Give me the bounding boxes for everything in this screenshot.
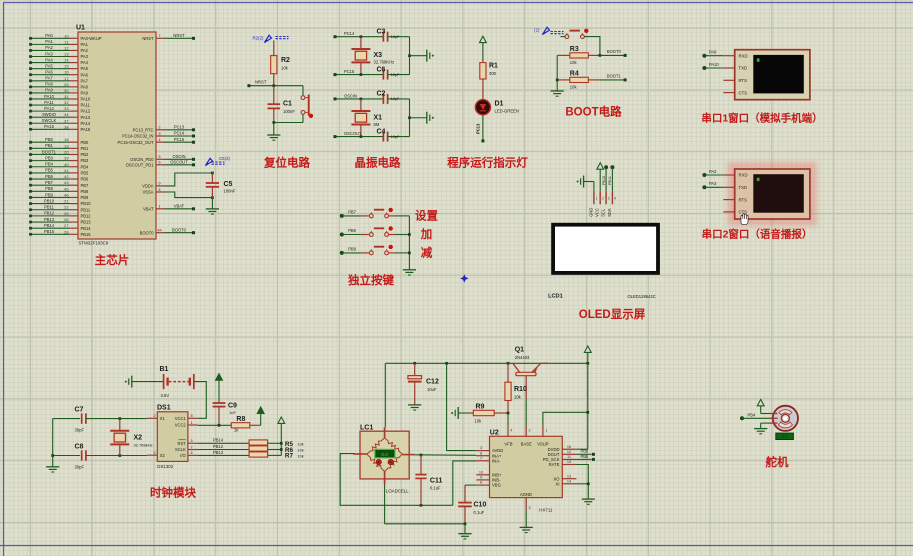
svg-text:PB8: PB8 xyxy=(348,228,356,233)
svg-text:C8: C8 xyxy=(75,444,84,451)
svg-text:VFB: VFB xyxy=(504,441,512,446)
svg-text:41: 41 xyxy=(64,168,68,173)
U1 pin 22 PB11 wire PB11 xyxy=(31,209,71,211)
terminal VT1 serial window 1 xyxy=(735,50,810,100)
wire PB7 to bus xyxy=(389,215,396,217)
svg-text:PC14-OSC32_IN: PC14-OSC32_IN xyxy=(122,134,153,139)
svg-text:C10: C10 xyxy=(474,502,487,509)
resistor R1 300 xyxy=(480,63,486,79)
svg-text:PA5: PA5 xyxy=(81,66,89,71)
svg-text:BOOT电路: BOOT电路 xyxy=(565,105,622,119)
U1 pin 25 PB12 wire PB12 xyxy=(31,215,71,217)
wire LC1 bottom xyxy=(384,485,386,524)
svg-text:NRST: NRST xyxy=(173,33,185,38)
terminal VT2 serial window 2 (highlighted) xyxy=(728,162,817,226)
svg-text:I/O: I/O xyxy=(180,453,185,458)
wire PC14 xyxy=(335,36,383,38)
svg-text:7: 7 xyxy=(158,33,160,38)
U1 pin 20 PB2 wire BOOT1 xyxy=(31,153,71,155)
loadcell internal leads xyxy=(384,427,386,438)
U1 pin 1 VBAT wire VBAT xyxy=(156,208,165,210)
U1 pin 3 PC14-OSC32_IN wire PC14 xyxy=(156,135,165,137)
wire BOOT0 net xyxy=(599,54,602,57)
svg-text:6: 6 xyxy=(480,481,482,485)
U2 pin 14 XI xyxy=(562,483,576,485)
U1 pin 4 PC15-OSC32_OUT wire PC15 xyxy=(156,141,165,143)
resistor R7 10k xyxy=(249,452,268,457)
wire VBG to C10 xyxy=(465,484,476,486)
svg-text:PB8: PB8 xyxy=(81,189,89,194)
svg-text:100nF: 100nF xyxy=(283,109,295,114)
svg-text:PB7: PB7 xyxy=(81,183,89,188)
svg-text:3.6V: 3.6V xyxy=(161,393,170,398)
svg-text:12pF: 12pF xyxy=(391,34,401,39)
svg-text:PA5: PA5 xyxy=(45,63,53,68)
svg-text:C7: C7 xyxy=(75,407,84,414)
svg-text:PB2: PB2 xyxy=(81,152,89,157)
push button PB8 xyxy=(340,233,344,237)
capacitor C5 100nF xyxy=(211,173,213,183)
svg-text:C2: C2 xyxy=(377,91,386,98)
svg-text:PA10: PA10 xyxy=(81,97,91,102)
svg-text:R4: R4 xyxy=(570,71,579,78)
terminal pin RXD xyxy=(723,55,734,57)
U1 pin 9 VDDA xyxy=(156,185,165,187)
U1 pin 40 PB4 wire PB4 xyxy=(31,166,71,168)
U2 pin 13 XO xyxy=(562,478,576,480)
wire PC15 xyxy=(335,74,383,76)
svg-text:27: 27 xyxy=(64,223,68,228)
svg-text:7: 7 xyxy=(191,444,193,449)
U2 pin 16 DVDD xyxy=(562,448,576,450)
U1 pin 10 PA0-WKUP wire PA0 xyxy=(31,37,71,39)
junction C10 bottom xyxy=(464,522,467,525)
svg-text:1: 1 xyxy=(596,196,598,200)
push button PB7 xyxy=(340,214,344,218)
U1 pin 21 PB10 wire PB10 xyxy=(31,203,71,205)
U1 pin 34 PA13 wire SWDIO xyxy=(31,116,71,118)
OLED pin 3 SCL xyxy=(605,191,607,204)
U1 pin 29 PA8 wire PA8 xyxy=(31,86,71,88)
wire OSCIN xyxy=(335,98,383,100)
svg-text:VDDA: VDDA xyxy=(142,184,154,189)
wire right rail X1 xyxy=(409,99,411,137)
U1 pin 2 PC13_RTC wire PC13 xyxy=(156,129,165,131)
wire PB9 to bus xyxy=(389,252,396,254)
servo angle display xyxy=(776,433,794,439)
svg-text:4: 4 xyxy=(510,429,512,433)
svg-text:R7: R7 xyxy=(285,453,294,460)
wire PB13 xyxy=(198,454,250,456)
svg-text:BASE: BASE xyxy=(521,441,532,446)
wire RATE XI to ground xyxy=(576,465,588,500)
svg-text:R3: R3 xyxy=(570,46,579,53)
svg-text:19: 19 xyxy=(64,143,68,148)
svg-text:2: 2 xyxy=(153,413,155,418)
wire button to BOOT0 xyxy=(584,37,600,56)
svg-text:C4: C4 xyxy=(377,128,386,135)
svg-text:10k: 10k xyxy=(570,60,578,65)
cursor (1) xyxy=(543,27,550,34)
loadcell bridge resistors xyxy=(367,438,385,455)
svg-text:10k: 10k xyxy=(514,395,522,400)
wire VSSA to C5 bottom xyxy=(165,192,213,198)
svg-text:1: 1 xyxy=(545,429,547,433)
capacitor C4 12pF xyxy=(382,132,384,142)
resistor R4 10k xyxy=(557,79,570,81)
svg-text:PB0: PB0 xyxy=(81,140,89,145)
svg-text:3: 3 xyxy=(608,196,610,200)
blue sparkle marker xyxy=(460,274,468,282)
U1 pin 46 PB9 wire PB9 xyxy=(31,196,71,198)
power arrow HX711 xyxy=(584,346,591,352)
svg-text:PC14: PC14 xyxy=(344,31,355,36)
svg-text:PA9: PA9 xyxy=(45,88,53,93)
svg-text:13: 13 xyxy=(64,52,68,57)
terminal pin CTS xyxy=(723,211,734,213)
svg-text:PA12: PA12 xyxy=(44,106,54,111)
svg-text:32: 32 xyxy=(64,100,68,105)
svg-text:PB9: PB9 xyxy=(81,195,89,200)
svg-text:时钟模块: 时钟模块 xyxy=(150,486,196,500)
crystal X2 32.768kHz xyxy=(119,419,121,431)
ground BOOT circuit xyxy=(551,90,564,92)
svg-text:PB14: PB14 xyxy=(44,223,55,228)
svg-text:12: 12 xyxy=(567,450,571,454)
U1 pin 42 PB6 wire PB6 xyxy=(31,178,71,180)
wire OSCOUT xyxy=(335,136,383,138)
wire PB14 xyxy=(198,442,250,444)
svg-text:PA7: PA7 xyxy=(81,78,89,83)
svg-text:复位电路: 复位电路 xyxy=(263,156,310,170)
svg-text:PA9: PA9 xyxy=(81,91,89,96)
svg-text:25: 25 xyxy=(64,211,68,216)
U1 pin 44 BOOT0 wire BOOT0 xyxy=(156,232,165,234)
U2 top pins 4 2 1 xyxy=(507,426,509,436)
svg-text:U2: U2 xyxy=(490,430,499,437)
svg-text:INA-: INA- xyxy=(492,458,501,463)
svg-text:10k: 10k xyxy=(298,448,304,452)
svg-text:VCC1: VCC1 xyxy=(175,416,187,421)
svg-text:30pF: 30pF xyxy=(75,428,85,433)
node NRST wire xyxy=(249,85,303,87)
svg-text:PA3: PA3 xyxy=(45,51,53,56)
svg-text:OSCOUT: OSCOUT xyxy=(170,159,188,164)
U2 pin 5 AGND xyxy=(525,498,527,511)
svg-text:GND: GND xyxy=(588,208,593,217)
svg-text:7: 7 xyxy=(480,456,482,460)
svg-text:4: 4 xyxy=(614,196,616,200)
U2 pin 12 DOUT xyxy=(562,453,576,455)
wire DOUT PB6 xyxy=(576,453,591,455)
svg-text:PB7: PB7 xyxy=(45,180,53,185)
svg-text:PA8: PA8 xyxy=(45,82,53,87)
ground left of OLED xyxy=(583,176,585,188)
resistor R8 1k xyxy=(231,423,250,428)
svg-text:PC15: PC15 xyxy=(344,69,355,74)
OLED pin 4 SDA xyxy=(611,191,613,204)
DS1 pin 6 I/O xyxy=(188,454,198,456)
svg-text:11: 11 xyxy=(567,455,571,459)
svg-text:R2: R2 xyxy=(281,57,290,64)
wire INA- down xyxy=(453,461,477,505)
svg-text:C11: C11 xyxy=(430,478,443,485)
svg-text:6: 6 xyxy=(191,450,193,455)
DS1 pin 5 RST xyxy=(188,442,198,444)
capacitor C7 30pF xyxy=(53,418,80,420)
svg-text:STM32F103C8: STM32F103C8 xyxy=(79,241,109,246)
resistor R2 10k xyxy=(273,41,275,56)
svg-text:VCC: VCC xyxy=(595,208,600,217)
DS1 pin 7 SCLK xyxy=(188,449,198,451)
svg-text:3: 3 xyxy=(480,446,482,450)
svg-text:OSCIN_PD0: OSCIN_PD0 xyxy=(130,157,154,162)
svg-text:PC15-OSC32_OUT: PC15-OSC32_OUT xyxy=(118,140,154,145)
U2 pin 6 VBG xyxy=(476,484,489,486)
svg-text:TXD: TXD xyxy=(739,66,748,71)
svg-text:PA2: PA2 xyxy=(709,169,717,174)
svg-text:BOOT1: BOOT1 xyxy=(607,74,622,79)
wire PA10 xyxy=(704,67,723,69)
svg-text:LED-GREEN: LED-GREEN xyxy=(495,109,519,114)
push button reset xyxy=(302,86,304,96)
U1 pin 28 PB15 wire PB15 xyxy=(31,233,71,235)
svg-text:PB11: PB11 xyxy=(44,205,54,210)
svg-text:PB10: PB10 xyxy=(602,176,606,185)
svg-text:RATE: RATE xyxy=(549,462,560,467)
power arrow LED xyxy=(480,36,487,42)
svg-text:Q1: Q1 xyxy=(515,347,524,354)
svg-text:5: 5 xyxy=(529,506,531,510)
svg-text:OSCIN: OSCIN xyxy=(173,154,186,159)
svg-text:2: 2 xyxy=(602,196,604,200)
wire PA2 xyxy=(704,174,723,176)
svg-text:PB13: PB13 xyxy=(81,220,92,225)
ground servo xyxy=(754,428,767,430)
U1 pin 39 PB3 wire PB3 xyxy=(31,160,71,162)
svg-text:37: 37 xyxy=(64,118,68,123)
U2 pin 15 RATE xyxy=(562,464,576,466)
svg-text:8: 8 xyxy=(158,187,160,192)
svg-text:VCC2: VCC2 xyxy=(175,423,187,428)
svg-text:OLED128642C: OLED128642C xyxy=(627,294,655,299)
svg-text:10k: 10k xyxy=(298,442,304,446)
svg-text:PA0: PA0 xyxy=(45,33,53,38)
servo pins xyxy=(770,413,778,415)
svg-text:BOOT0: BOOT0 xyxy=(140,230,155,235)
svg-text:12: 12 xyxy=(64,45,68,50)
svg-text:PB6: PB6 xyxy=(45,174,53,179)
svg-text:2: 2 xyxy=(158,125,160,130)
U1 pin 13 PA3 wire PA3 xyxy=(31,56,71,58)
svg-text:LC1: LC1 xyxy=(360,425,373,432)
wires resistor stack right xyxy=(268,442,282,444)
wire LC1 top xyxy=(384,363,386,427)
terminal pin RTS xyxy=(723,79,734,81)
svg-text:PB14: PB14 xyxy=(213,438,224,443)
crystal X1 8M xyxy=(360,98,363,101)
svg-text:PB12: PB12 xyxy=(44,211,55,216)
svg-text:PB10: PB10 xyxy=(44,198,55,203)
ground C10 xyxy=(464,524,466,534)
U2 pin 10 INB+ xyxy=(476,474,489,476)
svg-text:C6: C6 xyxy=(377,66,386,73)
U1 pin 38 PA15 wire PA15 xyxy=(31,128,71,130)
svg-text:PB15: PB15 xyxy=(81,232,92,237)
svg-text:1: 1 xyxy=(191,420,193,425)
svg-text:21: 21 xyxy=(64,199,68,204)
svg-text:42: 42 xyxy=(64,174,68,179)
capacitor C10 0.1uF xyxy=(464,485,466,503)
capacitor C2 12pF xyxy=(382,94,384,104)
svg-text:B1: B1 xyxy=(160,366,169,373)
svg-text:R9: R9 xyxy=(476,404,485,411)
wire SCL PB10 xyxy=(604,165,608,169)
svg-text:X2: X2 xyxy=(134,435,143,442)
ground AGND xyxy=(525,511,527,528)
resistor R10 10k xyxy=(507,363,509,382)
cursor C5(2) xyxy=(206,158,213,165)
OLED pin 2 VCC xyxy=(599,191,601,204)
svg-text:(1): (1) xyxy=(534,28,540,33)
DS1 pin 2 X1 xyxy=(147,417,157,419)
svg-text:OSCOUT: OSCOUT xyxy=(344,131,362,136)
svg-text:43: 43 xyxy=(64,180,68,185)
wire SDA PB11 xyxy=(610,165,614,169)
svg-text:8: 8 xyxy=(191,413,193,418)
svg-text:VSUP: VSUP xyxy=(537,441,549,446)
svg-text:26: 26 xyxy=(64,217,68,222)
svg-text:30pF: 30pF xyxy=(75,465,85,470)
U1 pin 5 OSCIN_PD0 wire OSCIN xyxy=(156,158,165,160)
DS1 pin 8 VCC1 xyxy=(188,417,198,419)
svg-text:PB5: PB5 xyxy=(581,454,589,459)
U1 pin 16 PA6 wire PA6 xyxy=(31,74,71,76)
wire button bus xyxy=(408,216,410,270)
ground left of battery xyxy=(131,376,133,388)
capacitor C11 0.1uF xyxy=(420,456,422,475)
svg-text:C12: C12 xyxy=(426,379,439,386)
ground right X1 xyxy=(426,112,428,124)
svg-text:CTS: CTS xyxy=(739,90,748,95)
svg-text:8: 8 xyxy=(480,451,482,455)
U2 pin 7 INA- xyxy=(476,460,489,462)
svg-text:晶振电路: 晶振电路 xyxy=(355,156,401,170)
svg-text:0.0: 0.0 xyxy=(381,452,388,457)
capacitor C12 10uF xyxy=(414,363,416,375)
svg-text:15: 15 xyxy=(64,64,68,69)
svg-text:PB15: PB15 xyxy=(44,229,55,234)
wire VSUP xyxy=(543,412,588,426)
svg-text:PA13: PA13 xyxy=(81,115,91,120)
wire PB8 to bus xyxy=(389,234,396,236)
svg-text:PA3: PA3 xyxy=(81,54,89,59)
svg-text:程序运行指示灯: 程序运行指示灯 xyxy=(447,156,528,170)
wire LC1 left loop xyxy=(340,454,453,506)
svg-text:PB9: PB9 xyxy=(45,192,53,197)
svg-text:BOOT0: BOOT0 xyxy=(172,227,187,232)
svg-text:10: 10 xyxy=(479,470,483,474)
svg-text:PC13_RTC: PC13_RTC xyxy=(133,127,154,132)
svg-text:PA0-WKUP: PA0-WKUP xyxy=(81,36,102,41)
svg-text:10k: 10k xyxy=(298,454,304,458)
svg-text:PA4: PA4 xyxy=(81,60,89,65)
svg-text:15: 15 xyxy=(567,460,571,464)
svg-text:C5: C5 xyxy=(224,181,233,188)
svg-text:10uF: 10uF xyxy=(427,387,437,392)
svg-text:32.768kHz: 32.768kHz xyxy=(134,443,153,448)
svg-text:10k: 10k xyxy=(281,66,289,71)
svg-text:3: 3 xyxy=(153,450,155,455)
crystal X3 32.768KHz xyxy=(360,35,363,38)
svg-text:SCLK: SCLK xyxy=(175,447,186,452)
U1 pin 6 OSCOUT_PD1 wire OSCOUT xyxy=(156,164,165,166)
svg-text:PA14: PA14 xyxy=(81,121,91,126)
wire battery to VCC1 xyxy=(194,382,207,419)
svg-text:PB12: PB12 xyxy=(81,213,92,218)
svg-text:PB0: PB0 xyxy=(45,137,53,142)
svg-text:2N4403: 2N4403 xyxy=(515,355,530,360)
svg-text:U1: U1 xyxy=(76,25,85,32)
capacitor C1 100nF xyxy=(273,86,275,105)
svg-text:加: 加 xyxy=(420,227,433,241)
svg-text:VBAT: VBAT xyxy=(174,203,185,208)
U1 pin 43 PB7 wire PB7 xyxy=(31,184,71,186)
power arrow OLED VCC xyxy=(597,163,604,169)
svg-text:12pF: 12pF xyxy=(391,96,401,101)
svg-text:100nF: 100nF xyxy=(224,189,236,194)
svg-text:32.768KHz: 32.768KHz xyxy=(374,60,395,65)
svg-text:9: 9 xyxy=(158,181,160,186)
svg-text:PB6: PB6 xyxy=(581,449,589,454)
wire servo ground xyxy=(761,422,773,424)
svg-text:3: 3 xyxy=(158,131,160,136)
svg-text:PA1: PA1 xyxy=(81,42,89,47)
ground clock module xyxy=(52,456,54,467)
svg-text:PB12: PB12 xyxy=(213,444,224,449)
svg-text:SWDIO: SWDIO xyxy=(42,112,56,117)
U1 pin 19 PB1 wire PB1 xyxy=(31,147,71,149)
terminal pin TXD xyxy=(723,67,734,69)
svg-text:PB3: PB3 xyxy=(45,155,53,160)
svg-text:VBAT: VBAT xyxy=(143,206,154,211)
svg-text:10k: 10k xyxy=(570,85,578,90)
ground C12 xyxy=(408,404,421,406)
svg-text:12pF: 12pF xyxy=(391,72,401,77)
svg-text:PB1: PB1 xyxy=(81,146,89,151)
svg-text:6: 6 xyxy=(158,160,160,165)
svg-text:PB14: PB14 xyxy=(81,226,92,231)
ground below C5 xyxy=(211,198,213,209)
capacitor C3 12pF xyxy=(382,32,384,42)
ground left of R9 xyxy=(457,407,459,419)
svg-text:PB7: PB7 xyxy=(348,210,356,215)
wire right rail X3 xyxy=(409,37,411,75)
svg-text:1nF: 1nF xyxy=(229,410,236,415)
resistor R6 10k xyxy=(249,446,268,451)
svg-text:减: 减 xyxy=(421,246,433,260)
power arrow resistor stack xyxy=(278,417,285,423)
U1 pin 14 PA4 wire PA4 xyxy=(31,62,71,64)
push button BOOT xyxy=(565,35,569,39)
svg-text:PC15: PC15 xyxy=(174,137,185,142)
U1 pin 37 PA14 wire SWCLK xyxy=(31,122,71,124)
svg-text:OSCIN: OSCIN xyxy=(344,93,357,98)
svg-text:PA4: PA4 xyxy=(45,57,53,62)
svg-text:0.1uF: 0.1uF xyxy=(430,486,441,491)
svg-text:5: 5 xyxy=(158,154,160,159)
U2 pin 9 INB- xyxy=(476,479,489,481)
